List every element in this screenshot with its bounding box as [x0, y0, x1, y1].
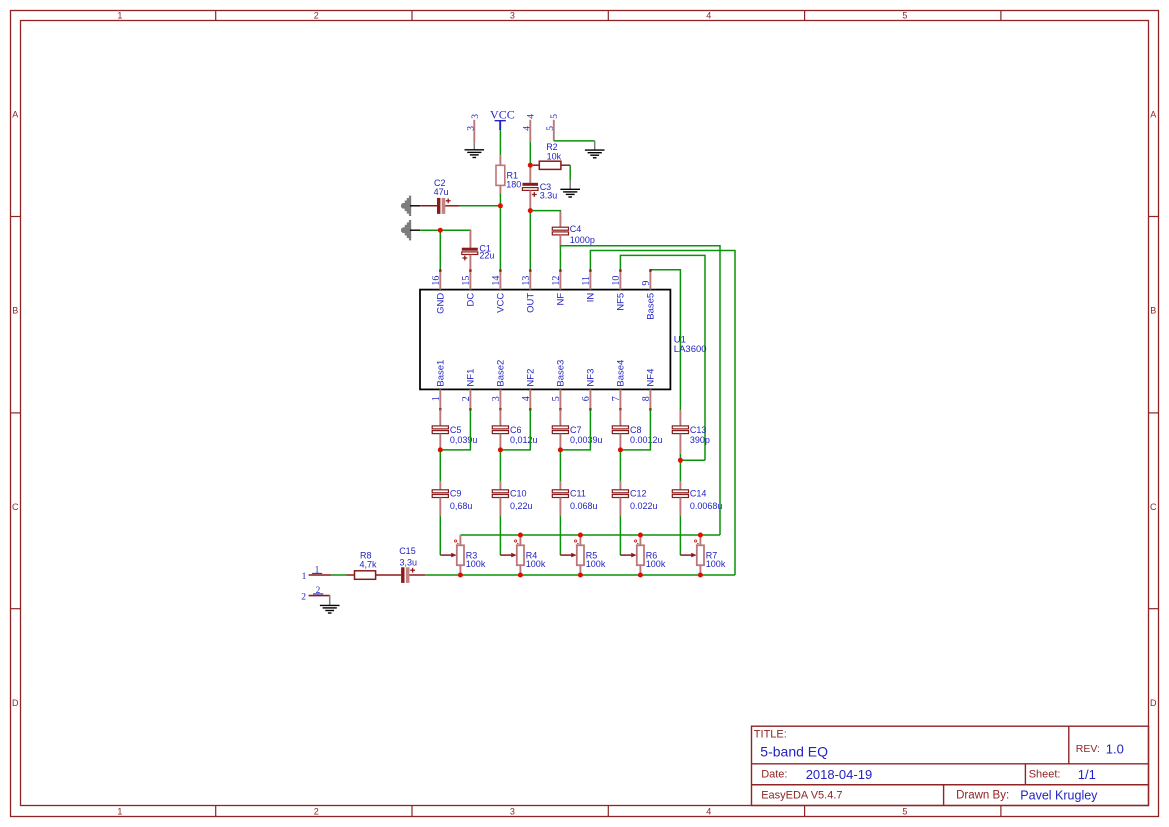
capacitor C8 bottom pin: [619, 434, 621, 450]
capacitor C10 top pin: [499, 481, 501, 490]
svg-text:1: 1: [117, 11, 122, 21]
potentiometer R5 bottom pin: [579, 565, 581, 575]
node junction bottom rail / R7: [698, 573, 703, 578]
svg-text:EasyEDA V5.4.7: EasyEDA V5.4.7: [761, 790, 842, 802]
wire connector 1 to R8: [331, 574, 347, 576]
node junction C7 / NF3: [558, 447, 563, 452]
svg-text:NF4: NF4: [646, 369, 657, 387]
wire node to C1: [440, 230, 470, 248]
svg-text:2: 2: [461, 396, 472, 401]
svg-text:0,0039u: 0,0039u: [570, 435, 603, 445]
wire IC pin 3 to C6: [499, 410, 501, 426]
capacitor C3 bottom pin: [529, 190, 531, 210]
svg-text:A: A: [1150, 109, 1156, 119]
svg-text:VCC: VCC: [496, 293, 507, 313]
svg-text:1000p: 1000p: [570, 235, 595, 245]
resistor R8 left lead: [347, 574, 355, 576]
potentiometer R7 top pin: [699, 535, 701, 545]
input arrow lead at C1: [410, 229, 420, 231]
potentiometer R3 top pin: [459, 535, 461, 545]
svg-text:11: 11: [581, 276, 592, 286]
potentiometer R7 wiper arrow: [680, 553, 696, 558]
potentiometer R4 top pin: [519, 535, 521, 545]
capacitor C1 top pin: [469, 230, 471, 248]
svg-text:2: 2: [301, 593, 306, 603]
node junction bottom rail / R4: [518, 573, 523, 578]
svg-text:3: 3: [510, 806, 515, 816]
node junction bottom rail / R3: [458, 573, 463, 578]
node junction top rail / R7: [698, 533, 703, 538]
capacitor C14: [672, 490, 688, 498]
ground symbol at connector 2: [320, 605, 340, 613]
potentiometer R4 wiper arrow: [500, 553, 516, 558]
resistor R8: [355, 571, 376, 580]
svg-text:1: 1: [431, 396, 442, 401]
svg-text:Drawn By:: Drawn By:: [956, 790, 1009, 802]
input arrow lead at C2: [410, 205, 420, 207]
wire C3 node to C4: [530, 211, 560, 222]
svg-text:100k: 100k: [706, 559, 726, 569]
svg-text:4: 4: [526, 114, 536, 119]
wire bottom rail IN net: [425, 574, 735, 576]
svg-text:C9: C9: [450, 489, 462, 499]
svg-text:NF5: NF5: [616, 293, 627, 311]
IC U1 bottom pin 4: [529, 389, 531, 409]
svg-text:100k: 100k: [586, 559, 606, 569]
capacitor C13 bottom pin: [679, 434, 681, 454]
resistor R2 left lead: [533, 164, 540, 166]
svg-text:0,039u: 0,039u: [450, 435, 478, 445]
IC U1 top pin 15: [469, 270, 471, 289]
IC U1 top pin 15 end dot: [469, 269, 471, 271]
wire node to C10: [499, 450, 501, 481]
potentiometer R5 wiper arrow: [560, 553, 576, 558]
node junction C8 / NF4: [618, 447, 623, 452]
wire IC pin 11 IN to bottom rail: [590, 251, 735, 576]
capacitor C1 bottom pin: [469, 255, 471, 271]
capacitor C9 top pin: [439, 481, 441, 490]
capacitor C6: [492, 426, 508, 434]
wire C10 to potentiometer wiper: [499, 515, 501, 555]
wire node to C11: [559, 450, 561, 481]
svg-text:C7: C7: [570, 425, 582, 435]
svg-text:2: 2: [316, 585, 321, 595]
IC U1 top pin 9 end dot: [649, 269, 651, 271]
potentiometer R7 terminal marker: [695, 540, 699, 544]
node junction C6 / NF2: [498, 447, 503, 452]
capacitor C1 polarized plates: [462, 248, 478, 255]
IC U1 bottom pin 2: [469, 389, 471, 409]
potentiometer R3 body: [457, 545, 464, 565]
svg-text:GND: GND: [436, 293, 447, 314]
svg-text:C12: C12: [630, 489, 647, 499]
svg-text:4,7k: 4,7k: [360, 559, 378, 569]
capacitor C10: [492, 490, 508, 498]
IC U1 top pin 11 end dot: [589, 269, 591, 271]
svg-text:3: 3: [491, 396, 502, 401]
resistor R8 right lead: [376, 574, 402, 576]
svg-text:0.0068u: 0.0068u: [690, 501, 723, 511]
svg-text:0.0012u: 0.0012u: [630, 435, 663, 445]
svg-text:100k: 100k: [646, 559, 666, 569]
IC U1 top pin 11: [589, 270, 591, 289]
svg-text:100k: 100k: [466, 559, 486, 569]
IC U1 bottom pin 6 end dot: [589, 408, 591, 410]
potentiometer R3 wiper arrow: [440, 553, 456, 558]
ground symbol at net 5: [585, 150, 605, 158]
wire VCC flag to R1: [499, 130, 501, 155]
capacitor C11: [552, 490, 568, 498]
capacitor C9 bottom pin: [439, 498, 441, 516]
capacitor C9: [432, 490, 448, 498]
capacitor C7 bottom pin: [559, 434, 561, 450]
IC U1 top pin 14 end dot: [499, 269, 501, 271]
ground stem at connector 2: [329, 595, 331, 606]
svg-text:3.3u: 3.3u: [540, 190, 558, 200]
frame row tick marks right: [1149, 217, 1159, 609]
wire net 5 to ground: [554, 140, 595, 142]
capacitor C4 top pin: [559, 212, 561, 228]
capacitor C12: [612, 490, 628, 498]
svg-text:1: 1: [117, 806, 122, 816]
ground stem at net 5: [594, 141, 596, 150]
VCC net flag bar symbol: [495, 121, 506, 130]
svg-text:Pavel Krugley: Pavel Krugley: [1020, 789, 1098, 803]
resistor R1: [496, 165, 505, 185]
capacitor C5 bottom pin: [439, 434, 441, 450]
capacitor C13: [672, 426, 688, 434]
net 3 port pin: [473, 120, 475, 143]
node junction top rail / R5: [578, 533, 583, 538]
svg-text:C15: C15: [399, 546, 416, 556]
IC U1 bottom pin 1 end dot: [439, 408, 441, 410]
node junction bottom rail / R5: [578, 573, 583, 578]
node junction C2 / R1 / pin14: [498, 203, 503, 208]
connector pin 2 lead: [309, 595, 330, 597]
frame column tick marks top: [216, 11, 1001, 21]
svg-text:4: 4: [522, 126, 532, 131]
svg-text:390p: 390p: [690, 435, 710, 445]
svg-text:C: C: [12, 502, 19, 512]
potentiometer R5 body: [577, 545, 584, 565]
op-amp IC U1 LA3600 body: [420, 290, 670, 390]
ground stem at R2: [569, 180, 571, 189]
wire NF top rail: [460, 534, 720, 536]
wire R1 to node at C2: [499, 193, 501, 205]
wire IC pin 1 to C5: [439, 410, 441, 426]
IC U1 bottom pin 8: [649, 389, 651, 409]
capacitor C2 left lead: [420, 205, 437, 207]
wire node to C14: [679, 460, 681, 481]
svg-text:NF3: NF3: [586, 369, 597, 387]
node junction bottom rail / R6: [638, 573, 643, 578]
node junction C5 / NF1: [438, 447, 443, 452]
capacitor C2 plus sign: [446, 200, 451, 202]
IC U1 bottom pin 8 end dot: [649, 408, 651, 410]
net 4 port pin: [529, 120, 531, 142]
svg-text:C4: C4: [570, 224, 582, 234]
wire C2 to R1 node: [460, 205, 501, 207]
svg-text:2018-04-19: 2018-04-19: [806, 767, 873, 782]
capacitor C15 polarized plates: [401, 567, 409, 583]
svg-text:B: B: [1150, 306, 1156, 316]
wire IC pin 5 to C7: [559, 410, 561, 426]
svg-text:0,68u: 0,68u: [450, 501, 473, 511]
potentiometer R7 body: [697, 545, 704, 565]
svg-text:Base4: Base4: [616, 360, 627, 387]
svg-text:NF2: NF2: [526, 369, 537, 387]
svg-text:C14: C14: [690, 489, 707, 499]
capacitor C12 bottom pin: [619, 498, 621, 516]
IC U1 bottom pin 6: [589, 389, 591, 409]
connector pin 1 number underline: [312, 572, 322, 574]
capacitor C6 bottom pin: [499, 434, 501, 450]
wire node to NF5 vertical: [680, 459, 705, 461]
svg-text:13: 13: [521, 276, 532, 286]
svg-text:10: 10: [611, 276, 622, 286]
wire net 4 to R2 node: [529, 142, 531, 165]
IC U1 top pin 14: [499, 270, 501, 289]
svg-text:NF: NF: [556, 293, 567, 306]
frame column numbers top: [117, 11, 907, 21]
capacitor C5: [432, 426, 448, 434]
wire C9 to potentiometer wiper: [439, 515, 441, 555]
capacitor C7: [552, 426, 568, 434]
IC U1 bottom pin 5 end dot: [559, 408, 561, 410]
capacitor C2 polarized plates: [437, 198, 445, 214]
svg-text:0,22u: 0,22u: [510, 501, 533, 511]
frame column tick marks bottom: [216, 806, 1001, 817]
potentiometer R4 body: [517, 545, 524, 565]
svg-text:2: 2: [314, 806, 319, 816]
svg-text:C5: C5: [450, 425, 462, 435]
wire C4 to NF vertical and pin 12: [560, 246, 720, 535]
node junction top rail / R4: [518, 533, 523, 538]
potentiometer R6 top pin: [639, 535, 641, 545]
svg-text:VCC: VCC: [490, 107, 515, 121]
svg-text:0.068u: 0.068u: [570, 501, 598, 511]
frame row letters left: [12, 109, 19, 708]
svg-text:C10: C10: [510, 489, 527, 499]
svg-text:LA3600: LA3600: [674, 344, 707, 355]
node junction C3 / C4 / pin13: [528, 208, 533, 213]
svg-text:100k: 100k: [526, 559, 546, 569]
IC U1 bottom pin 7: [619, 389, 621, 409]
node junction top rail / R6: [638, 533, 643, 538]
connector pin 1 lead: [309, 574, 331, 576]
svg-text:Base2: Base2: [496, 360, 507, 387]
wire node to C9: [439, 450, 441, 481]
IC U1 top pin 16: [439, 270, 441, 289]
wire IC pin 2 NF1 down: [440, 410, 470, 450]
svg-text:0,012u: 0,012u: [510, 435, 538, 445]
connector pin 2 number underline: [313, 593, 323, 595]
svg-text:D: D: [1150, 698, 1157, 708]
wire IC pin 8 NF4 down: [620, 410, 650, 450]
svg-text:4: 4: [706, 11, 711, 21]
title block row divider 1: [752, 763, 1149, 765]
svg-text:5: 5: [902, 11, 907, 21]
capacitor C11 bottom pin: [559, 498, 561, 516]
title block outline: [752, 726, 1149, 805]
potentiometer R3 terminal marker: [455, 540, 459, 544]
svg-text:1.0: 1.0: [1106, 742, 1124, 757]
svg-text:C: C: [1150, 502, 1157, 512]
svg-text:0.022u: 0.022u: [630, 501, 658, 511]
svg-text:16: 16: [431, 276, 442, 286]
svg-text:REV:: REV:: [1076, 743, 1100, 755]
svg-text:Sheet:: Sheet:: [1029, 769, 1061, 781]
capacitor C15 right lead: [410, 574, 426, 576]
capacitor C1 plus sign: [462, 257, 467, 259]
svg-text:TITLE:: TITLE:: [754, 728, 787, 740]
svg-text:3,3u: 3,3u: [400, 557, 418, 567]
wire node to C12: [619, 450, 621, 481]
capacitor C10 bottom pin: [499, 498, 501, 516]
IC U1 bottom pin 1: [439, 389, 441, 409]
input arrow symbol at C1: [401, 220, 411, 240]
title block row divider 2: [752, 784, 1149, 786]
IC U1 bottom pin 3: [499, 389, 501, 409]
svg-text:3: 3: [510, 11, 515, 21]
svg-text:5: 5: [902, 806, 907, 816]
wire arrow to GND node: [420, 229, 440, 231]
capacitor C4: [552, 227, 568, 235]
wire node to IC pin 13: [529, 211, 531, 271]
wire C14 to potentiometer R7 wiper: [679, 515, 681, 555]
svg-text:C11: C11: [570, 489, 586, 499]
IC U1 top pin 10 end dot: [619, 269, 621, 271]
potentiometer R7 bottom pin: [699, 565, 701, 575]
svg-text:1: 1: [315, 564, 320, 574]
svg-text:7: 7: [611, 396, 622, 401]
potentiometer R5 terminal marker: [575, 540, 579, 544]
IC U1 top pin 16 end dot: [439, 269, 441, 271]
potentiometer R5 top pin: [579, 535, 581, 545]
svg-text:5: 5: [551, 396, 562, 401]
net 3 ground stem: [473, 142, 475, 150]
IC U1 top pin 13 end dot: [529, 269, 531, 271]
capacitor C3 polarized plates: [522, 183, 538, 191]
IC U1 bottom pin 5: [559, 389, 561, 409]
IC U1 top pin 9: [649, 270, 651, 289]
capacitor C8: [612, 426, 628, 434]
svg-text:10k: 10k: [547, 151, 562, 161]
wire IC pin 9 Base5 to C13: [650, 270, 680, 410]
potentiometer R4 bottom pin: [519, 565, 521, 575]
IC U1 top pin 12 end dot: [559, 269, 561, 271]
frame row tick marks left: [11, 217, 21, 609]
resistor R1 bottom pin: [499, 185, 501, 193]
capacitor C15 plus sign: [410, 569, 415, 571]
input arrow symbol at C2: [401, 196, 411, 216]
svg-text:1/1: 1/1: [1078, 767, 1096, 782]
svg-text:IN: IN: [586, 293, 597, 303]
potentiometer R6 bottom pin: [639, 565, 641, 575]
wire R2 to ground: [569, 165, 571, 180]
svg-text:12: 12: [551, 276, 562, 286]
svg-text:C13: C13: [690, 425, 707, 435]
svg-text:D: D: [12, 698, 19, 708]
svg-text:5-band EQ: 5-band EQ: [760, 743, 828, 759]
capacitor C3 plus sign: [532, 194, 537, 196]
resistor R1 top pin: [499, 155, 501, 165]
wire C12 to potentiometer wiper: [619, 515, 621, 555]
title block Drawn By divider: [943, 785, 945, 806]
wire C13 to node: [679, 454, 681, 460]
potentiometer R6 body: [637, 545, 644, 565]
svg-text:1: 1: [302, 572, 307, 582]
svg-text:OUT: OUT: [526, 293, 537, 313]
IC U1 bottom pin 7 end dot: [619, 408, 621, 410]
svg-text:2: 2: [314, 11, 319, 21]
wire node to IC pin 14: [499, 206, 501, 270]
svg-text:5: 5: [546, 126, 556, 131]
svg-text:4: 4: [706, 806, 711, 816]
wire IC pin 4 NF2 down: [500, 410, 530, 450]
svg-text:Base1: Base1: [436, 360, 447, 387]
capacitor C4 bottom pin: [559, 235, 561, 246]
svg-text:Date:: Date:: [761, 769, 787, 781]
svg-text:3: 3: [471, 114, 481, 119]
svg-text:A: A: [12, 109, 18, 119]
svg-text:15: 15: [461, 276, 472, 286]
IC U1 bottom pin 4 end dot: [529, 408, 531, 410]
wire IC pin 7 to C8: [619, 410, 621, 426]
svg-text:Base3: Base3: [556, 360, 567, 387]
svg-text:8: 8: [641, 396, 652, 401]
capacitor C14 top pin: [679, 481, 681, 490]
IC U1 top pin 12: [559, 270, 561, 289]
svg-text:47u: 47u: [434, 187, 449, 197]
ground symbol at R2: [560, 189, 580, 197]
svg-text:Base5: Base5: [646, 293, 657, 320]
svg-text:B: B: [12, 306, 18, 316]
svg-text:NF1: NF1: [466, 369, 477, 387]
node junction arrow / pin16 / C1: [438, 228, 443, 233]
wire C11 to potentiometer wiper: [559, 515, 561, 555]
title block REV divider: [1068, 726, 1070, 764]
capacitor C13 top pin: [679, 410, 681, 426]
potentiometer R6 wiper arrow: [620, 553, 636, 558]
resistor R2: [539, 161, 561, 169]
capacitor C2 right lead: [445, 205, 459, 207]
node junction R2 / net4 / C3: [528, 163, 533, 168]
frame row letters right: [1150, 109, 1157, 708]
net 5 port pin: [553, 120, 555, 141]
title block Sheet divider: [1024, 764, 1026, 785]
potentiometer R6 terminal marker: [635, 540, 639, 544]
IC U1 bottom pin 2 end dot: [469, 408, 471, 410]
svg-text:5: 5: [550, 114, 560, 119]
IC U1 top pin 10: [619, 270, 621, 289]
wire IC pin 6 NF3 down: [560, 410, 590, 450]
node junction C13 / NF5 / C14: [678, 458, 683, 463]
svg-text:14: 14: [491, 276, 502, 286]
svg-text:DC: DC: [466, 293, 477, 307]
wire IC pin 10 NF5 to C13 node: [620, 255, 705, 460]
svg-text:9: 9: [641, 281, 652, 286]
svg-text:6: 6: [581, 396, 592, 401]
capacitor C3 top pin: [529, 165, 531, 183]
potentiometer R4 terminal marker: [515, 540, 519, 544]
frame column numbers bottom: [117, 806, 907, 816]
IC U1 top pin 13: [529, 270, 531, 289]
svg-text:C8: C8: [630, 425, 642, 435]
wire node to IC pin 16: [439, 230, 441, 270]
capacitor C11 top pin: [559, 481, 561, 490]
potentiometer R3 bottom pin: [459, 565, 461, 575]
